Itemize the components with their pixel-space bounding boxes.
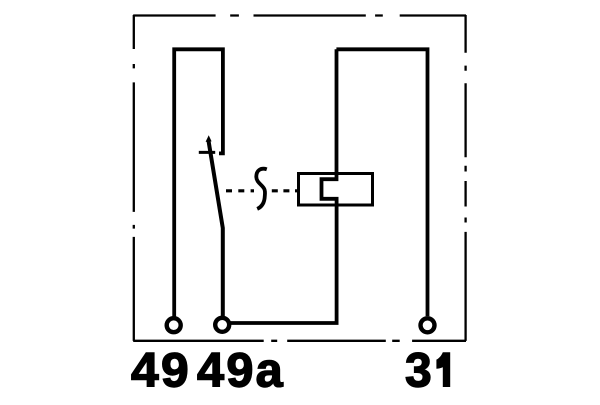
svg-text:49a: 49a bbox=[197, 345, 285, 398]
label 31 (digit 1, no-foot style) bbox=[436, 352, 450, 387]
relay element rectangle (flasher unit) bbox=[299, 174, 373, 206]
terminal 49 circle bbox=[167, 318, 181, 332]
relay enclosure dash-dot border (right) bbox=[464, 15, 466, 341]
relay enclosure dash-dot border (top) bbox=[133, 14, 466, 16]
switch blade S (movable contact) bbox=[208, 140, 223, 317]
svg-text:3: 3 bbox=[405, 345, 432, 398]
switch fixed contact cross bar bbox=[199, 151, 215, 154]
terminal 31 circle bbox=[421, 318, 435, 332]
relay enclosure dash-dot border (left) bbox=[133, 15, 135, 341]
thermal actuator squiggle bbox=[256, 169, 267, 209]
wire: relay element hook through rectangle down to 49a bbox=[230, 49, 337, 323]
relay enclosure dash-dot border (bottom) bbox=[133, 340, 466, 342]
dashed actuation link (right part) bbox=[272, 189, 297, 192]
switch blade arrow tip bbox=[206, 135, 212, 142]
dashed actuation link (left part) bbox=[226, 189, 254, 192]
svg-text:49: 49 bbox=[131, 345, 191, 398]
wire: terminal 49 up and across to switch fixed contact (left inverted U) bbox=[174, 49, 223, 316]
wire: terminal 31 up and across to relay element (right inverted U) bbox=[336, 49, 427, 316]
terminal 49a circle bbox=[215, 318, 229, 332]
